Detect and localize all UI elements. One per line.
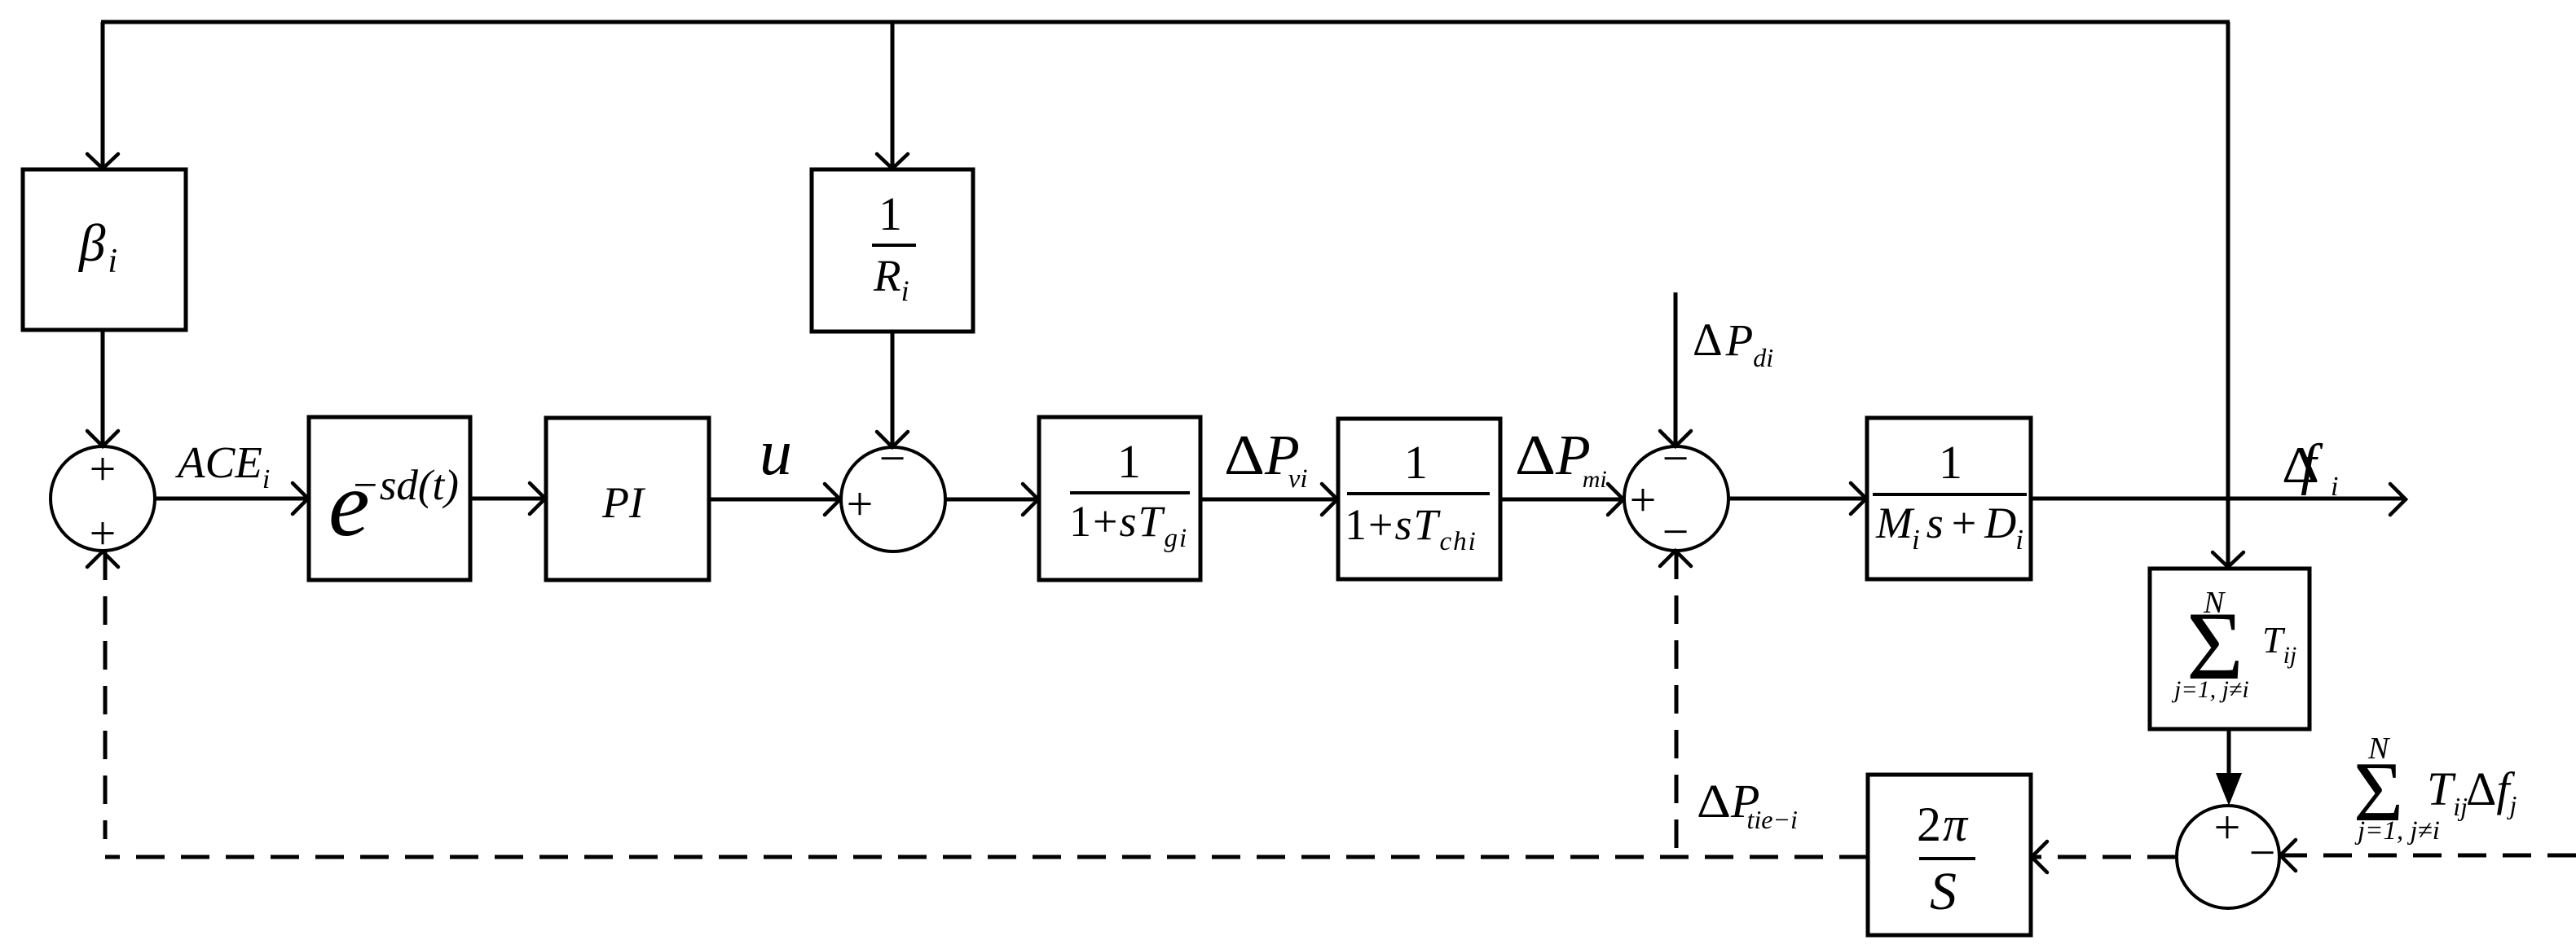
wire sum3 to M block: [1729, 497, 1867, 501]
svg-text:ACEi: ACEi: [174, 437, 270, 494]
arrowhead into sum2 left: [825, 484, 840, 515]
block beta_i: [23, 169, 186, 330]
fraction 2pi bar: [1919, 857, 1975, 860]
arrowhead into PI: [530, 483, 545, 514]
arrowhead into sum1 bottom: [87, 551, 118, 567]
wire dPdi into sum3: [1674, 292, 1678, 446]
summing junction sum3: [1624, 446, 1728, 551]
wire top feedback horizontal: [101, 20, 2230, 24]
svg-text:−: −: [2249, 826, 2276, 879]
wire top-left vertical into beta: [101, 22, 105, 169]
svg-text:1: 1: [878, 187, 902, 240]
arrowhead into sum3 left: [1608, 484, 1623, 515]
svg-text:1: 1: [1404, 436, 1428, 489]
summing junction sum2: [841, 447, 945, 551]
arrowhead into sum3 bottom: [1660, 551, 1691, 566]
arrowhead into M block: [1851, 483, 1866, 514]
arrowhead into sigma box: [2213, 552, 2244, 567]
fraction 1/Ri bar: [872, 244, 916, 247]
arrowhead into sum3 top: [1660, 431, 1691, 446]
svg-text:PI: PI: [601, 478, 646, 527]
block 2pi/S: [1868, 775, 2031, 935]
svg-text:−: −: [1662, 505, 1689, 558]
block e^-sd(t): [309, 417, 470, 580]
arrowhead into beta box: [87, 154, 118, 169]
wire dashed from right edge: [2282, 854, 2576, 858]
block sum Tij: [2150, 569, 2310, 729]
block 1/(1+sTchi): [1338, 419, 1500, 579]
fraction M bar: [1873, 493, 2027, 496]
svg-text:+: +: [90, 442, 117, 495]
arrowhead into 2pi box right: [2032, 841, 2047, 872]
svg-text:+: +: [847, 477, 874, 530]
svg-text:+: +: [2214, 801, 2241, 854]
svg-text:−sd(t): −sd(t): [350, 462, 459, 509]
wire dashed sum4 to 2pi box: [2032, 855, 2176, 859]
svg-text:TijΔfj: TijΔfj: [2427, 762, 2517, 821]
block 1/Ri: [812, 169, 973, 332]
wire PI to sum2: [709, 498, 841, 502]
wire Tgi to Tchi: [1200, 498, 1338, 502]
arrowhead into e-block: [293, 483, 308, 514]
svg-text:1: 1: [1117, 435, 1141, 488]
svg-text:+: +: [90, 507, 117, 560]
svg-text:j=1, j≠i: j=1, j≠i: [2354, 816, 2440, 846]
arrowhead output: [2390, 484, 2406, 515]
svg-text:−: −: [1662, 432, 1689, 485]
wire dashed sum3 bottom vertical: [1675, 551, 1679, 854]
wire right feedback vertical: [2226, 22, 2230, 568]
wire top to 1/R vertical: [891, 22, 895, 169]
svg-text:1: 1: [1939, 436, 1962, 489]
wire beta to sum1: [101, 330, 105, 447]
block 1/(1+sTgi): [1039, 417, 1200, 580]
svg-text:j=1, j≠i: j=1, j≠i: [2171, 676, 2249, 703]
block 1/(Mis+Di): [1867, 418, 2031, 579]
wire output Delta-f: [2031, 497, 2406, 501]
wire 1/R to sum2: [891, 332, 895, 447]
arrowhead into 1/R box: [877, 154, 908, 169]
arrowhead into Tgi block: [1023, 484, 1038, 515]
arrowhead into sum2 top: [877, 432, 908, 447]
wire sum1 to e-block: [155, 497, 309, 501]
wire dashed 2pi to left: [105, 855, 1868, 859]
wire e-block to PI: [470, 497, 546, 501]
svg-text:N: N: [2203, 586, 2226, 620]
svg-text:S: S: [1930, 862, 1957, 921]
arrowhead into sum1 top: [87, 431, 118, 446]
arrowhead into sum4 right: [2280, 840, 2296, 871]
svg-text:i: i: [2331, 472, 2338, 502]
svg-text:2π: 2π: [1917, 797, 1969, 851]
summing junction sum1: [51, 446, 155, 551]
svg-text:N: N: [2367, 732, 2391, 766]
wire sum2 to Tgi block: [945, 498, 1039, 502]
wire Tchi to sum3: [1500, 498, 1624, 502]
fraction Tchi bar: [1347, 492, 1490, 495]
wire dashed left vertical: [103, 551, 108, 839]
summing junction sum4: [2177, 806, 2279, 908]
wire sigma box to sum4: [2227, 729, 2231, 782]
svg-text:ΔPvi: ΔPvi: [1224, 424, 1308, 494]
svg-text:+: +: [1630, 473, 1657, 526]
arrowhead into Tchi block: [1322, 484, 1337, 515]
svg-text:u: u: [760, 417, 792, 489]
arrowhead filled into sum4: [2216, 773, 2242, 806]
fraction Tgi bar: [1070, 491, 1190, 494]
svg-text:−: −: [879, 432, 906, 485]
block PI: [546, 418, 709, 580]
